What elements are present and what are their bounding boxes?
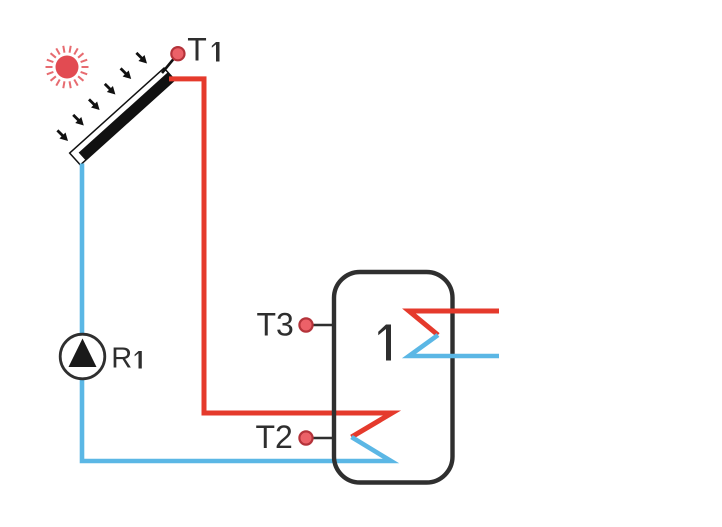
svg-text:T: T [187,31,207,67]
svg-text:T3: T3 [257,307,294,343]
svg-text:R: R [111,343,132,375]
svg-text:T2: T2 [256,419,293,455]
